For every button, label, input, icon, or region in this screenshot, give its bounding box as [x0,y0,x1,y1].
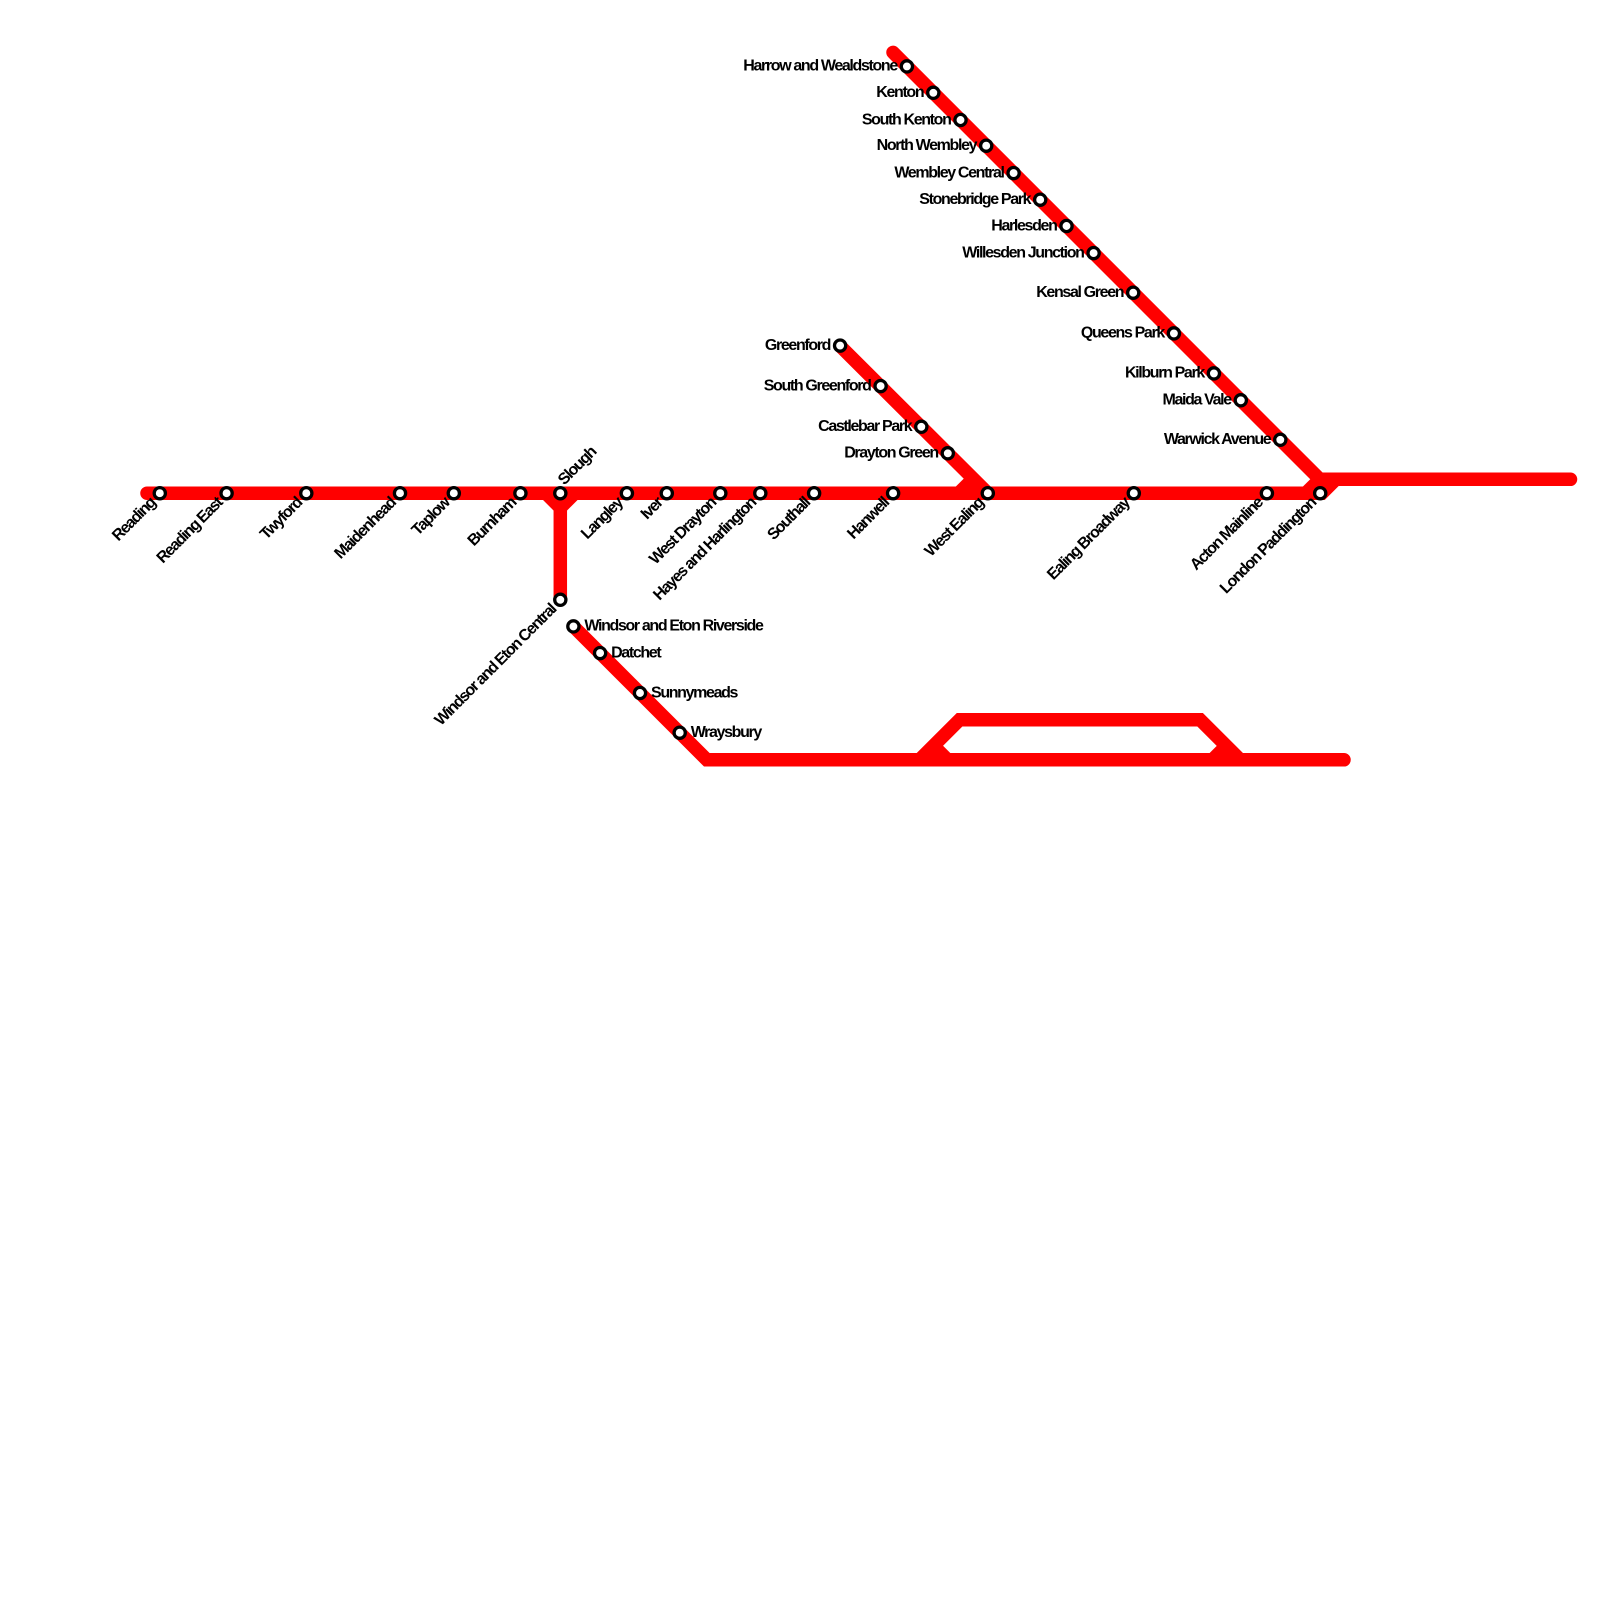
station Greenford [765,337,846,354]
svg-text:South Kenton: South Kenton [862,111,951,128]
station Southall [764,488,819,544]
svg-text:Warwick Avenue: Warwick Avenue [1164,431,1272,448]
svg-text:Maida Vale: Maida Vale [1162,392,1232,409]
station Castlebar Park [818,418,927,435]
svg-text:Sunnymeads: Sunnymeads [651,684,739,701]
wire: passing loop bypass [920,720,1241,760]
svg-text:North Wembley: North Wembley [877,137,978,154]
station Willesden Junction [962,244,1099,261]
svg-text:Stonebridge Park: Stonebridge Park [919,191,1031,208]
svg-text:Castlebar Park: Castlebar Park [818,418,913,435]
station North Wembley [877,137,992,154]
svg-text:South Greenford: South Greenford [764,377,871,394]
station Reading [109,488,165,545]
station Ealing Broadway [1044,488,1139,584]
station Langley [578,488,632,543]
svg-text:Drayton Green: Drayton Green [844,445,938,462]
wire: Bakerloo diagonal Harrow-junction [893,52,1340,479]
station Windsor and Eton Riverside [568,618,764,635]
station Stonebridge Park [919,191,1045,208]
switch connector at loop west end [934,746,948,760]
station Datchet [595,644,663,661]
switch connector east of Slough [560,493,575,508]
wire: main line Reading-Paddington with right extension [147,479,1571,493]
station Wraysbury [674,724,762,741]
station Windsor and Eton Central [432,594,566,729]
svg-text:Kensal Green: Kensal Green [1036,284,1124,301]
station South Greenford [764,377,886,394]
svg-text:Kilburn Park: Kilburn Park [1125,365,1205,382]
svg-text:Datchet: Datchet [611,644,662,661]
station Wembley Central [894,164,1019,181]
switch connector at loop east end [1212,746,1226,760]
station Drayton Green [844,445,953,462]
station Harlesden [991,217,1072,234]
station Taplow [409,488,460,539]
svg-text:Harlesden: Harlesden [991,217,1057,234]
svg-text:Windsor and Eton Riverside: Windsor and Eton Riverside [584,618,764,635]
station Hayes and Harlington [650,488,766,604]
switch connector at West Ealing [959,479,974,493]
switch connector west of Slough [546,493,561,508]
station Kenton [876,84,939,101]
svg-text:Wraysbury: Wraysbury [691,724,763,741]
wire: Slough-Windsor Central branch [554,493,568,600]
station South Kenton [862,111,966,128]
station Queens Park [1081,325,1180,342]
station Acton Mainline [1187,488,1272,574]
svg-text:Willesden Junction: Willesden Junction [962,244,1084,261]
station London Paddington [1217,488,1326,598]
svg-text:Harrow and Wealdstone: Harrow and Wealdstone [743,58,898,75]
svg-text:Greenford: Greenford [765,337,831,354]
station Warwick Avenue [1164,431,1286,448]
svg-text:Kenton: Kenton [876,84,924,101]
switch connector at London Paddington [1306,479,1320,493]
station Kilburn Park [1125,365,1220,382]
wire: Greenford branch [840,346,988,493]
station Reading East [154,488,233,567]
station Twyford [257,488,312,544]
station Maida Vale [1162,392,1246,409]
svg-text:Queens Park: Queens Park [1081,325,1165,342]
station Iver [638,488,673,523]
wire: Windsor Riverside-Staines line [573,626,1344,759]
station Harrow and Wealdstone [743,58,912,75]
station Kensal Green [1036,284,1139,301]
station Hanwell [844,488,898,543]
station Sunnymeads [634,684,738,701]
svg-text:Wembley Central: Wembley Central [894,164,1004,181]
station Slough [555,443,600,498]
station West Drayton [646,488,726,568]
station Burnham [465,488,526,550]
station Maidenhead [331,488,405,563]
station West Ealing [922,488,994,560]
